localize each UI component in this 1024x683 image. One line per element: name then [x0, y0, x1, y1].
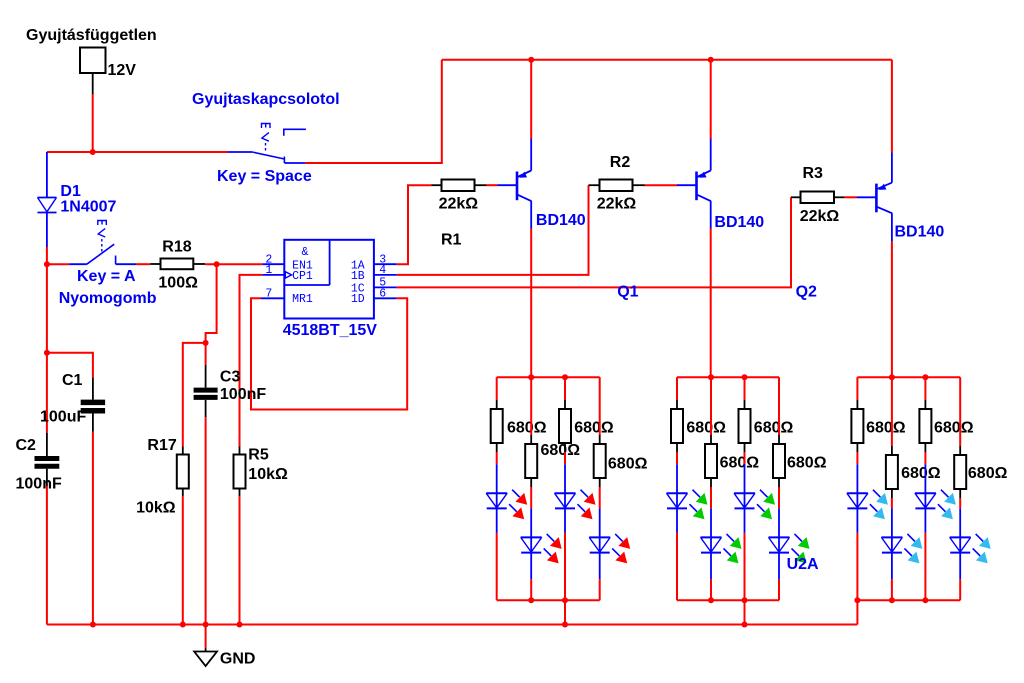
resistor 680Ohm blue LEDs branch 3 [924, 377, 926, 400]
resistor R18 100Ohm [150, 239, 205, 292]
resistor 680Ohm green LEDs branch 1 [676, 377, 678, 400]
wire Q2 collector down [891, 242, 893, 378]
wire LED cathode to bottom bus [856, 533, 858, 600]
switch S2 Key=Space (Gyujtaskapcsolotol) [192, 91, 340, 185]
transistor Q2 BD140 [857, 153, 892, 242]
wire LED cathode to bottom bus [891, 579, 893, 600]
wire CP1 to R5 column [240, 275, 263, 447]
LED green LEDs branch 2 [710, 508, 712, 537]
wire Key=A to R18 [136, 263, 150, 265]
LED red LEDs branch 2 [530, 508, 532, 537]
junction C3/R17 branch [203, 340, 209, 346]
capacitor C1 100uF [40, 372, 105, 432]
wire red LEDs bottom bus [497, 599, 600, 601]
junction rail/T1 [528, 57, 534, 63]
svg-text:100Ω: 100Ω [158, 274, 198, 291]
junction green LEDs bottom bus [708, 597, 714, 603]
LED blue LEDs branch 1 [856, 464, 858, 493]
capacitor C3 100nF [194, 365, 267, 417]
svg-text:680Ω: 680Ω [754, 420, 794, 437]
svg-text:680Ω: 680Ω [866, 420, 906, 437]
wire LED cathode to bottom bus [924, 533, 926, 600]
LED blue LEDs branch 2 [891, 508, 893, 537]
junction blue LEDs bottom bus [889, 597, 895, 603]
svg-text:R18: R18 [162, 239, 191, 256]
svg-text:680Ω: 680Ω [574, 420, 614, 437]
wire C1 branch [47, 353, 93, 378]
power source V1 12V [26, 27, 157, 94]
LED red LEDs branch 3 [564, 464, 566, 493]
junction rail/R17 [180, 622, 186, 628]
wire branch to R17 [183, 343, 206, 447]
junction rail/Q1 [708, 57, 714, 63]
svg-text:680Ω: 680Ω [901, 465, 941, 482]
svg-text:680Ω: 680Ω [541, 442, 581, 459]
wire blue LEDs bottom bus [857, 599, 960, 601]
svg-text:Key = A: Key = A [77, 268, 136, 285]
wire pin5 1C to R3 [397, 197, 791, 287]
wire C1 to ground rail [92, 432, 94, 625]
resistor 680Ohm red LEDs branch 2 [530, 377, 532, 435]
wire ground rail [47, 624, 858, 626]
transistor Q1 BD140 [677, 139, 711, 229]
svg-text:Key = Space: Key = Space [217, 168, 312, 185]
wire LED cathode to bottom bus [710, 579, 712, 600]
resistor R5 10kOhm [234, 447, 288, 497]
svg-text:BD140: BD140 [536, 212, 586, 229]
capacitor C2 100nF [16, 433, 62, 492]
resistor 680Ohm green LEDs branch 4 [778, 377, 780, 435]
svg-text:R2: R2 [610, 154, 631, 171]
wire C2 to ground rail [46, 486, 48, 625]
svg-text:680Ω: 680Ω [934, 420, 974, 437]
resistor R2 22kOhm [589, 154, 645, 213]
wire R1 to T1 base [487, 184, 498, 186]
svg-text:MR1: MR1 [292, 293, 313, 306]
wire pin4 1B to R2 [397, 185, 589, 275]
junction 12V node [90, 149, 96, 155]
wire Q1 emitter to rail [710, 60, 712, 139]
svg-text:1: 1 [265, 264, 272, 277]
svg-text:680Ω: 680Ω [608, 455, 648, 472]
resistor R3 22kOhm [791, 165, 844, 225]
svg-text:6: 6 [379, 288, 386, 301]
svg-text:680Ω: 680Ω [507, 420, 547, 437]
wire Key=Space to top rail [305, 60, 441, 163]
wire R18 to EN1 [205, 263, 262, 265]
junction C1 branch node [44, 350, 50, 356]
junction rail/C1 [90, 622, 96, 628]
svg-text:R3: R3 [803, 165, 824, 182]
LED array blue LEDs [847, 374, 1008, 624]
LED blue LEDs branch 3 [924, 464, 926, 493]
svg-text:1B: 1B [351, 270, 365, 283]
transistor T1 BD140 [498, 139, 532, 229]
svg-text:Nyomogomb: Nyomogomb [59, 290, 157, 307]
svg-text:7: 7 [265, 288, 272, 301]
resistor 680Ohm red LEDs branch 4 [599, 377, 601, 435]
svg-text:CP1: CP1 [292, 270, 313, 283]
wire left vertical to C2 [46, 353, 48, 433]
svg-text:22kΩ: 22kΩ [800, 208, 840, 225]
LED red LEDs branch 1 [496, 464, 498, 493]
LED green LEDs branch 4 [778, 508, 780, 537]
resistor R1 22kOhm [431, 180, 486, 249]
wire LED cathode to bottom bus [676, 533, 678, 600]
svg-text:4518BT_15V: 4518BT_15V [283, 322, 378, 339]
junction rail/C3/GND [203, 622, 209, 628]
svg-text:680Ω: 680Ω [968, 465, 1008, 482]
junction Key=A node [44, 261, 50, 267]
wire R17 to ground rail [182, 496, 184, 624]
wire LED cathode to bottom bus [744, 533, 746, 600]
LED green LEDs branch 3 [744, 464, 746, 493]
resistor 680Ohm red LEDs branch 1 [496, 377, 498, 400]
svg-text:R1: R1 [441, 232, 462, 249]
svg-text:100nF: 100nF [220, 386, 266, 403]
wire EN1 node down-jog to C3/R17 [206, 264, 217, 343]
LED array green LEDs [667, 374, 827, 627]
wire red LEDs top bus [497, 376, 600, 378]
diode D1 1N4007 [38, 152, 117, 247]
svg-text:4: 4 [379, 264, 386, 277]
wire Q2 emitter from rail corner [891, 60, 893, 153]
svg-text:C1: C1 [62, 372, 83, 389]
junction rail/R5 [237, 622, 243, 628]
wire green LEDs bus to ground rail [744, 600, 746, 624]
wire left vertical to C1 node [46, 264, 48, 353]
junction red LEDs top bus [528, 374, 534, 380]
svg-text:Q1: Q1 [617, 283, 638, 300]
junction rail/red LEDs [562, 622, 568, 628]
wire LED cathode to bottom bus [496, 533, 498, 600]
wire green LEDs top bus [677, 376, 779, 378]
svg-text:680Ω: 680Ω [686, 420, 726, 437]
wire MR1 feedback loop from 1D [251, 298, 407, 409]
svg-text:U2A: U2A [787, 556, 819, 573]
wire R2 to Q1 base [645, 184, 678, 186]
svg-text:22kΩ: 22kΩ [597, 196, 637, 213]
resistor R17 10kOhm [136, 437, 189, 517]
LED green LEDs branch 1 [676, 464, 678, 493]
svg-text:BD140: BD140 [714, 214, 764, 231]
switch S1 Key=A pushbutton [47, 221, 157, 308]
wire red LEDs bus to ground rail [564, 600, 566, 624]
wire D1 to Key=A node [46, 247, 48, 264]
wire T1 collector down [530, 229, 532, 378]
wire R3 to Q2 base [844, 196, 857, 198]
wire LED cathode to bottom bus [530, 579, 532, 600]
svg-text:1D: 1D [351, 293, 365, 306]
svg-text:GND: GND [220, 651, 256, 668]
wire LED cathode to bottom bus [599, 579, 601, 600]
wire pin3 1A to R1 [397, 185, 431, 264]
svg-text:R17: R17 [147, 437, 176, 454]
wire Q1 collector down [710, 229, 712, 378]
LED red LEDs branch 4 [599, 508, 601, 537]
wire LED cathode to bottom bus [959, 579, 961, 600]
svg-text:Gyujtaskapcsolotol: Gyujtaskapcsolotol [192, 91, 340, 108]
svg-text:Gyujtásfüggetlen: Gyujtásfüggetlen [26, 27, 157, 44]
svg-text:&: & [302, 246, 309, 259]
svg-text:10kΩ: 10kΩ [136, 500, 176, 517]
svg-text:680Ω: 680Ω [787, 455, 827, 472]
resistor 680Ohm red LEDs branch 3 [564, 377, 566, 400]
junction R18 output node [214, 261, 220, 267]
wire top power rail [442, 59, 892, 61]
resistor 680Ohm green LEDs branch 2 [710, 377, 712, 435]
svg-text:D1: D1 [60, 183, 81, 200]
resistor 680Ohm blue LEDs branch 4 [959, 377, 961, 446]
wire green LEDs bottom bus [677, 599, 779, 601]
svg-text:Q2: Q2 [796, 283, 817, 300]
junction rail/green LEDs [742, 622, 748, 628]
junction red LEDs bottom bus [528, 597, 534, 603]
wire C3 top [205, 343, 207, 365]
wire top-left rail [47, 151, 228, 153]
wire T1 emitter to rail [530, 60, 532, 139]
wire LED cathode to bottom bus [564, 533, 566, 600]
ground symbol GND [194, 625, 255, 668]
svg-text:10kΩ: 10kΩ [248, 466, 288, 483]
svg-text:12V: 12V [108, 62, 137, 79]
IC U1 4518BT_15V counter [261, 240, 397, 339]
LED array red LEDs [486, 374, 647, 627]
resistor 680Ohm green LEDs branch 3 [744, 377, 746, 400]
svg-text:100nF: 100nF [16, 475, 62, 492]
svg-text:1N4007: 1N4007 [60, 199, 116, 216]
wire C3 to ground rail [205, 417, 207, 624]
svg-text:22kΩ: 22kΩ [439, 196, 479, 213]
svg-text:680Ω: 680Ω [720, 455, 760, 472]
wire LED cathode to bottom bus [778, 579, 780, 600]
svg-text:BD140: BD140 [895, 223, 945, 240]
junction blue LEDs top bus [889, 374, 895, 380]
wire 12V to top-left rail [92, 94, 94, 152]
wire blue LEDs top bus [857, 376, 960, 378]
resistor 680Ohm blue LEDs branch 2 [891, 377, 893, 446]
svg-text:C2: C2 [16, 437, 37, 454]
resistor 680Ohm blue LEDs branch 1 [856, 377, 858, 400]
LED blue LEDs branch 4 [959, 508, 961, 537]
svg-text:100uF: 100uF [40, 409, 86, 426]
wire R5 to ground rail [239, 496, 241, 624]
wire blue LEDs bus to ground rail [856, 600, 858, 624]
junction green LEDs top bus [708, 374, 714, 380]
svg-text:C3: C3 [220, 369, 241, 386]
svg-text:R5: R5 [248, 447, 269, 464]
